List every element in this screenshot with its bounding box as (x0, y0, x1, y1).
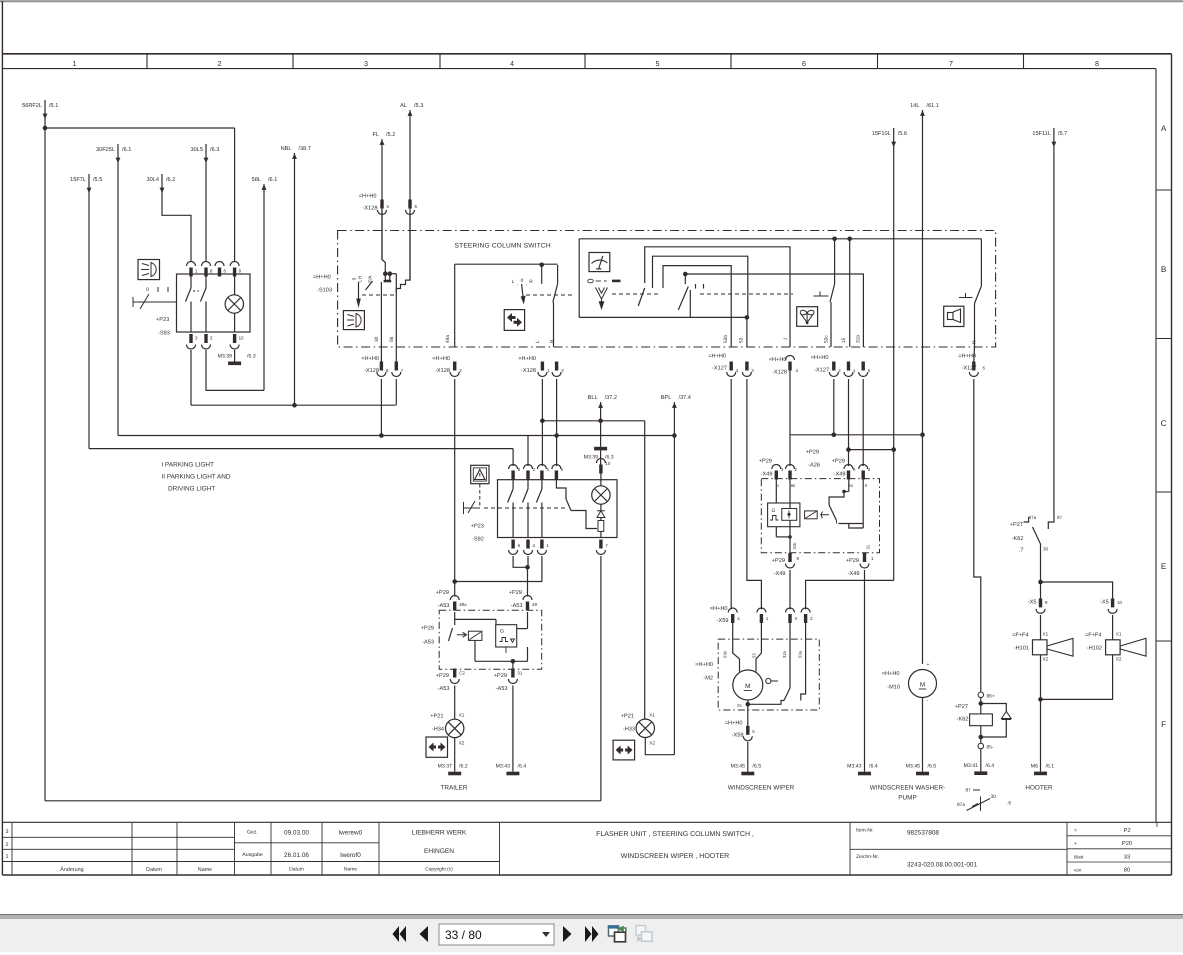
wiper switch position row (588, 279, 594, 283)
A53 49a connector (450, 596, 459, 601)
wire pin3-NBL-X128pin7 horizontal (191, 404, 396, 406)
washer mech dashes (820, 295, 830, 297)
wire down to S92 pin 1 (512, 449, 514, 466)
svg-text:49a: 49a (445, 335, 451, 343)
steering switch power bus wire (579, 238, 981, 240)
svg-text:WINDSCREEN WASHER-: WINDSCREEN WASHER- (870, 785, 945, 792)
svg-text:+: + (1074, 841, 1077, 847)
junction 15 on bus (847, 237, 852, 242)
svg-text:=H+H0: =H+H0 (769, 357, 787, 363)
svg-text:3: 3 (751, 368, 754, 373)
S103 terminal bridge (385, 275, 390, 280)
svg-text:8: 8 (386, 368, 389, 373)
wire X128 pin 7 down (395, 379, 397, 405)
S92 contact a (512, 480, 514, 489)
wire 15F7L horizontal to S92 pin 1 (89, 448, 513, 450)
svg-text:+P29: +P29 (436, 590, 449, 596)
svg-text:30: 30 (374, 336, 380, 342)
svg-text:80: 80 (1124, 867, 1130, 874)
wiper contact interval (638, 288, 645, 306)
svg-text:-M2: -M2 (703, 676, 713, 682)
wire 30L5 to S93 pin 8 (205, 144, 207, 262)
wire hooter contact drop (980, 239, 982, 286)
pilot lamp H33 (636, 719, 654, 737)
ground splice M3:39 above S92 (594, 447, 607, 451)
svg-text:56RF2L: 56RF2L (22, 103, 42, 109)
svg-text:4: 4 (510, 59, 514, 68)
connector X127 pin 2 (832, 362, 835, 371)
junction horn split (1038, 580, 1043, 585)
S93 contact 2 (205, 274, 207, 288)
S93 bottom pin connectors (189, 334, 192, 343)
svg-text:8: 8 (518, 467, 521, 472)
svg-text:Datum: Datum (289, 867, 304, 873)
svg-text:31: 31 (517, 671, 522, 676)
svg-text:8: 8 (210, 269, 213, 274)
svg-text:6: 6 (983, 366, 986, 371)
wire 15 branch to 15F10L (849, 449, 894, 451)
svg-text:3: 3 (795, 616, 798, 621)
svg-text:15F11L: 15F11L (1032, 131, 1051, 137)
svg-text:1: 1 (871, 556, 874, 561)
svg-text:+P29: +P29 (436, 673, 449, 679)
svg-text:E: E (1161, 562, 1167, 571)
svg-text:86+: 86+ (987, 694, 995, 700)
svg-text:-X59: -X59 (732, 733, 744, 739)
X59 pin 2 connector (801, 608, 810, 613)
svg-text:3: 3 (364, 59, 368, 68)
wire X59 pin2 53a stub (801, 622, 806, 701)
svg-text:M3:41: M3:41 (964, 763, 979, 769)
svg-text:1: 1 (766, 616, 769, 621)
S92 pin 10 connector (596, 459, 605, 463)
svg-text:Änderung: Änderung (60, 866, 83, 873)
svg-text:/6.4: /6.4 (869, 764, 878, 770)
svg-text:+P27: +P27 (955, 704, 968, 710)
svg-text:4: 4 (736, 368, 739, 373)
svg-text:-X49: -X49 (761, 472, 773, 478)
svg-text:=H+H0: =H+H0 (361, 356, 379, 362)
svg-text:LH: LH (358, 276, 363, 282)
wire S103 to X128 pin 8 (380, 282, 382, 362)
svg-text:2: 2 (795, 467, 798, 472)
toolbar next-page button (563, 926, 572, 942)
svg-text:7: 7 (949, 59, 953, 68)
svg-text:30L4: 30L4 (147, 177, 159, 183)
A26 G box outer (768, 503, 800, 527)
X59 pin 1 connector (757, 608, 766, 613)
horn H101 (1040, 615, 1042, 640)
washer pump M10 (909, 670, 937, 698)
turn signal mech dashed link (526, 294, 575, 296)
svg-text:33 / 80: 33 / 80 (445, 928, 482, 942)
svg-text:-X49: -X49 (834, 472, 846, 478)
svg-text:3: 3 (561, 368, 564, 373)
wire 30L4 to S93 (162, 174, 191, 262)
svg-text:1: 1 (73, 59, 77, 68)
wire K62 to ground (980, 749, 982, 772)
wire NBL vertical (294, 153, 296, 405)
svg-text:1: 1 (547, 368, 550, 373)
svg-text:-X128: -X128 (363, 206, 378, 212)
svg-text:STEERING COLUMN SWITCH: STEERING COLUMN SWITCH (455, 243, 551, 250)
svg-text:1: 1 (195, 269, 198, 274)
connector X128 pin 3 (555, 362, 558, 371)
svg-text:31b: 31b (792, 542, 797, 550)
row letter ticks on right margin (1156, 189, 1172, 191)
wire H102 to junction (1041, 655, 1113, 700)
X59 pin 3 connector (786, 608, 795, 613)
wire X49 pin1 to ground (864, 570, 866, 772)
A53 49 internal wire (527, 612, 529, 629)
svg-text:=H+H0: =H+H0 (811, 355, 829, 361)
svg-text:EHINGEN: EHINGEN (424, 848, 454, 855)
svg-text:3: 3 (195, 336, 198, 341)
svg-text:/38.7: /38.7 (299, 145, 311, 152)
connector X128 pin 7 (395, 362, 398, 371)
svg-text:8: 8 (797, 556, 800, 561)
svg-text:X2: X2 (1043, 657, 1049, 662)
svg-text:31b: 31b (856, 335, 862, 343)
junction 14L on 53c net (920, 432, 925, 437)
svg-text:-A53: -A53 (496, 686, 508, 692)
svg-text:2: 2 (210, 336, 213, 341)
svg-text:II PARKING LIGHT AND: II PARKING LIGHT AND (162, 474, 231, 481)
svg-text:2: 2 (218, 59, 222, 68)
A53 internal wiring (454, 612, 456, 625)
svg-text:WINDSCREEN WIPER , HOOTER: WINDSCREEN WIPER , HOOTER (621, 853, 730, 860)
X49 pin 6 connector (844, 465, 853, 470)
svg-text:Item-Nr.: Item-Nr. (856, 828, 874, 834)
svg-text:-X127: -X127 (814, 368, 829, 374)
connector X128 pin 2 (453, 362, 456, 371)
svg-text:26.01.06: 26.01.06 (284, 852, 309, 859)
svg-text:0: 0 (352, 277, 357, 280)
junction R on 30F25L net (554, 433, 559, 438)
headlight icon box S93 (138, 260, 160, 280)
S92 contact d path (556, 480, 566, 499)
svg-text:/6.3: /6.3 (210, 146, 219, 153)
svg-text:49a: 49a (459, 602, 467, 607)
svg-text:-A53: -A53 (438, 603, 450, 609)
svg-text:-A53: -A53 (438, 686, 450, 692)
wiper mech dashed link (612, 293, 660, 295)
svg-text:=H+H0: =H+H0 (710, 606, 728, 612)
S92 internal lamp (592, 486, 610, 504)
svg-text:30F25L: 30F25L (96, 147, 115, 153)
wire to A53 49 connector (527, 567, 529, 596)
wire 56RF2L vertical (44, 100, 46, 128)
A26 G box inner (782, 509, 797, 521)
S92 mech dashed link (484, 507, 567, 509)
title block sheet info section (1066, 822, 1068, 875)
svg-text:HOOTER: HOOTER (1025, 785, 1053, 792)
wire M10 to ground (922, 698, 924, 772)
wire hooter to X127 pin 6 (973, 347, 976, 362)
S93 internal lamp (225, 295, 243, 313)
wire S93 pin 2 to 58L (206, 350, 264, 390)
svg-text:J: J (783, 337, 789, 340)
wire X49 pin8 to X59 pin 3 (789, 570, 791, 609)
junction 15F10L with 15 net (891, 447, 896, 452)
S93 lamp wires (234, 274, 236, 295)
wire 31b from wiper switch (685, 274, 863, 347)
svg-text:/37.4: /37.4 (678, 394, 690, 401)
svg-text:3: 3 (781, 467, 784, 472)
wire 31b X127 to A26 pin 4 (862, 379, 864, 466)
svg-text:3243-020.08.00.001-001: 3243-020.08.00.001-001 (907, 862, 977, 869)
flasher unit A53 dash-dot box (439, 610, 542, 669)
svg-text:0: 0 (521, 278, 524, 284)
svg-text:-X49: -X49 (774, 571, 786, 577)
wire H34 to ground (454, 738, 456, 772)
K62 contact 87 stub (1048, 515, 1054, 530)
svg-text:X2: X2 (649, 741, 655, 746)
svg-text:5: 5 (752, 729, 755, 734)
svg-text:15: 15 (849, 483, 854, 488)
wire R down to S92 pin 5 (556, 379, 558, 466)
svg-text:87a: 87a (1029, 515, 1037, 520)
svg-text:Gez.: Gez. (247, 830, 258, 836)
wire AL connector to switch (409, 215, 411, 280)
wire indicator lamp feed vertical (644, 421, 646, 720)
svg-text:Blatt: Blatt (1074, 855, 1084, 860)
svg-text:31: 31 (866, 544, 871, 549)
svg-text:M: M (920, 682, 925, 689)
svg-text:TRAILER: TRAILER (441, 785, 468, 792)
svg-text:A: A (1161, 124, 1167, 133)
frame inner right border (1155, 69, 1157, 822)
svg-text:lwerof0: lwerof0 (340, 852, 361, 859)
svg-text:1: 1 (777, 483, 780, 488)
turn signal actuator arrow (522, 284, 524, 300)
A53 internal bottom wiring (474, 640, 476, 661)
A26 dash-dot box (761, 479, 879, 553)
wire X59 pin3 park contact (789, 622, 791, 688)
wire 53c vertical (834, 239, 836, 284)
A53 G box (496, 625, 517, 647)
junction 49a with S92 return (452, 579, 457, 584)
junction 15 branch (846, 447, 851, 452)
S103 terminal squares (383, 271, 388, 276)
washer icon box (797, 307, 818, 327)
svg-text:/5.6: /5.6 (898, 130, 907, 137)
svg-text:/37.2: /37.2 (605, 394, 617, 401)
svg-text:P2: P2 (1123, 827, 1130, 834)
svg-text:6: 6 (518, 543, 521, 548)
X49 pin 2 connector (786, 465, 795, 470)
svg-text:Name: Name (344, 867, 358, 873)
toolbar first-page button (400, 926, 407, 942)
svg-text:33: 33 (1124, 854, 1130, 861)
svg-text:,: , (517, 281, 518, 286)
svg-text:5: 5 (561, 467, 564, 472)
svg-text:09.03.00: 09.03.00 (284, 830, 309, 837)
svg-text:9: 9 (1045, 600, 1048, 605)
svg-text:+P29: +P29 (421, 626, 434, 632)
svg-text:10: 10 (1117, 600, 1122, 605)
svg-text:-S92: -S92 (472, 537, 484, 543)
wiper common contact (684, 274, 686, 284)
wire 15F10L to X59 pin 2 (806, 580, 894, 609)
junction L branch (540, 419, 545, 424)
svg-text:3: 3 (6, 829, 9, 835)
svg-text:30: 30 (991, 794, 997, 800)
washer contact (830, 284, 835, 302)
trailer icon box H33 (613, 740, 635, 760)
svg-text:+P29: +P29 (494, 673, 507, 679)
svg-text:WINDSCREEN WIPER: WINDSCREEN WIPER (728, 785, 795, 792)
svg-text:NBL: NBL (281, 146, 292, 152)
wiper motor M2 (733, 670, 763, 700)
svg-text:87a: 87a (957, 802, 965, 808)
wire 53 down to X127 (746, 317, 748, 347)
A26 relay contact (848, 479, 850, 492)
turn signal feed wire 49a top (455, 263, 558, 265)
svg-text:X2: X2 (459, 741, 465, 746)
svg-text:=: = (1074, 828, 1077, 834)
svg-text:/6.1: /6.1 (122, 146, 131, 153)
svg-text:=H+H0: =H+H0 (725, 721, 743, 727)
svg-text:87: 87 (1057, 515, 1063, 520)
wire A26 feed horizontal (790, 434, 923, 436)
svg-text:30: 30 (1043, 547, 1049, 552)
svg-text:-A53: -A53 (511, 603, 523, 609)
svg-text:=H+H0: =H+H0 (432, 356, 450, 362)
wire 15F10L vertical (893, 128, 895, 580)
svg-text:G: G (772, 508, 776, 514)
svg-text:+P29: +P29 (846, 558, 859, 564)
A53 relay box (468, 631, 482, 640)
wire 15F7L vertical (88, 174, 90, 449)
title block middle row lines (235, 842, 380, 844)
svg-text:58L: 58L (252, 177, 261, 183)
S92 contact c (541, 480, 543, 489)
svg-text:56: 56 (389, 336, 395, 342)
connector X127 pin 5 (862, 362, 865, 371)
A53 C2 connector (453, 669, 456, 678)
svg-text:5: 5 (868, 368, 871, 373)
svg-text:=H+H0: =H+H0 (708, 354, 726, 360)
svg-text:Zeichn-Nr.: Zeichn-Nr. (856, 854, 879, 860)
svg-text:M3:37: M3:37 (438, 764, 453, 770)
wire AL vertical to S103 stair (396, 110, 410, 293)
connector X128 pin 1 (541, 362, 544, 371)
frame inner line below column band (2, 68, 1156, 70)
svg-text:X1: X1 (649, 713, 655, 718)
svg-text:86: 86 (791, 483, 796, 488)
svg-text:.6: .6 (1007, 801, 1011, 807)
washer push symbol (814, 295, 828, 297)
turn signal icon box (504, 310, 524, 331)
wire S92 pin7 ground down (600, 556, 602, 801)
wiper nested wire 53b (663, 266, 731, 347)
frame bottom border (2, 874, 1171, 876)
horn H102 (1112, 615, 1114, 640)
svg-text:53: 53 (739, 337, 745, 343)
svg-text:DRIVING LIGHT: DRIVING LIGHT (168, 486, 215, 493)
hazard switch S92 box (498, 480, 618, 538)
svg-text:/5.5: /5.5 (93, 176, 102, 183)
svg-text:I PARKING LIGHT: I PARKING LIGHT (162, 462, 215, 469)
svg-text:/6.2: /6.2 (459, 764, 468, 770)
svg-text:C2: C2 (459, 671, 465, 676)
wire 56RF2L long left vertical (44, 128, 46, 801)
connector X127 pin 3 (745, 362, 748, 371)
turn signal R contact (557, 265, 559, 284)
A26 coil box (805, 511, 818, 519)
svg-text:/6.3: /6.3 (605, 455, 614, 461)
svg-text:-H102: -H102 (1087, 646, 1102, 652)
connector X128 pin 5 (380, 200, 383, 209)
wiper common junction (683, 272, 688, 277)
svg-text:/5.2: /5.2 (386, 131, 395, 138)
svg-text:87: 87 (966, 788, 972, 794)
wire BPL vertical (673, 402, 675, 755)
svg-text:6: 6 (802, 59, 806, 68)
svg-text:Datum: Datum (146, 867, 162, 873)
svg-text:H: H (972, 340, 978, 344)
svg-text:6: 6 (224, 269, 227, 274)
svg-text:-H101: -H101 (1014, 646, 1029, 652)
svg-text:4: 4 (796, 368, 799, 373)
svg-text:Copyright (c): Copyright (c) (425, 867, 453, 873)
wire K62 30 down to horns (1040, 544, 1042, 582)
svg-text:LIEBHERR WERK: LIEBHERR WERK (412, 830, 467, 837)
title block row lines left section (2, 836, 234, 838)
svg-text:Ausgabe: Ausgabe (242, 852, 263, 858)
wire X127 pin6 to K62 coil (974, 379, 981, 692)
A53 31 connector (511, 669, 514, 678)
wire 15 X127 down (848, 379, 850, 466)
wiper switch selector arrows (596, 288, 608, 309)
S92 bottom connectors (511, 540, 514, 549)
svg-text:-K62: -K62 (1012, 536, 1024, 542)
junction BLL (598, 419, 603, 424)
svg-text:5: 5 (387, 204, 390, 209)
wire X59 pin5 to ground (747, 742, 749, 772)
svg-text:53b: 53b (723, 335, 729, 343)
wire H33 bottom to BPL (645, 738, 674, 755)
wire FL above connector (381, 210, 383, 260)
S92 pin 7 connector (599, 540, 602, 549)
svg-text:53c: 53c (824, 335, 830, 343)
toolbar page combo box (439, 924, 554, 945)
svg-text:-S93: -S93 (158, 331, 170, 337)
A53 internal contact (449, 628, 453, 641)
svg-text:=F+F4: =F+F4 (1012, 633, 1028, 639)
wire motor to X59 pin 5 (747, 700, 749, 726)
svg-text:X1: X1 (1043, 632, 1049, 637)
X127 pin 6 connector (972, 362, 975, 371)
trailer indicator lamp H34 (446, 719, 464, 737)
svg-text:-A53: -A53 (422, 640, 434, 646)
hooter push symbol (959, 297, 973, 299)
svg-text:25: 25 (737, 703, 742, 708)
svg-text:8: 8 (1095, 59, 1099, 68)
wire J X128 to A26 pin 2 (789, 370, 791, 466)
svg-text:M3:43: M3:43 (847, 764, 862, 770)
A26 coil arrow symbol (820, 512, 829, 519)
toolbar previous-page button (420, 926, 429, 942)
switch S93 box (177, 274, 251, 332)
page top edge line (0, 0, 1183, 2)
wire L down to S92 pin 3 (541, 379, 543, 466)
svg-text:M3:45: M3:45 (731, 764, 746, 770)
svg-text:-M10: -M10 (887, 685, 900, 691)
svg-text:+P29: +P29 (832, 459, 845, 465)
junction on L contact (539, 263, 544, 268)
